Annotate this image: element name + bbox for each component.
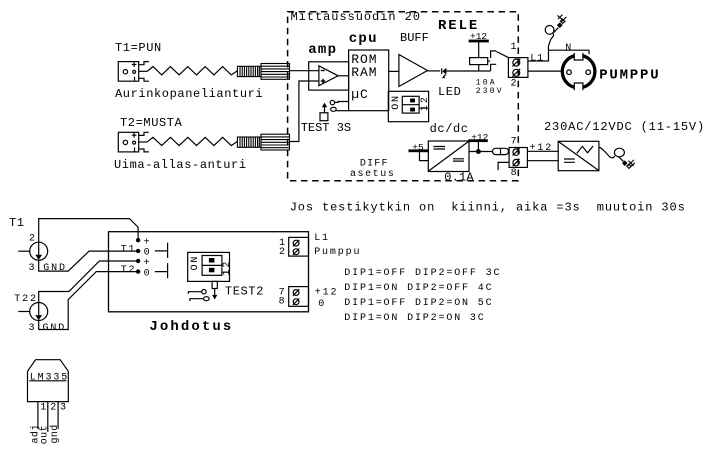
svg-text:Aurinkopanelianturi: Aurinkopanelianturi	[115, 87, 263, 101]
svg-text:230AC/12VDC (11-15V): 230AC/12VDC (11-15V)	[544, 120, 705, 134]
svg-text:T22: T22	[14, 294, 38, 305]
svg-text:PUMPPU: PUMPPU	[599, 68, 660, 84]
svg-text:L1: L1	[530, 53, 544, 64]
svg-text:BUFF: BUFF	[400, 31, 429, 45]
svg-text:GND: GND	[43, 323, 67, 334]
svg-text:Pumppu: Pumppu	[314, 247, 361, 258]
svg-text:asetus: asetus	[350, 169, 395, 180]
svg-text:Johdotus: Johdotus	[149, 319, 233, 335]
svg-text:DIP1=OFF DIP2=ON 5C: DIP1=OFF DIP2=ON 5C	[344, 298, 493, 309]
svg-text:dc/dc: dc/dc	[430, 122, 469, 136]
svg-text:ON: ON	[190, 255, 201, 271]
svg-text:T2: T2	[121, 265, 137, 276]
svg-text:T2=MUSTA: T2=MUSTA	[120, 116, 183, 130]
svg-text:Mittaussuodin 20: Mittaussuodin 20	[291, 10, 421, 24]
svg-text:DIP1=OFF DIP2=OFF 3C: DIP1=OFF DIP2=OFF 3C	[344, 268, 501, 279]
svg-text:2: 2	[279, 247, 285, 258]
svg-text:10A: 10A	[476, 78, 497, 87]
svg-text:1: 1	[511, 42, 517, 53]
svg-text:+12: +12	[315, 287, 339, 298]
svg-text:DIP1=ON DIP2=ON 3C: DIP1=ON DIP2=ON 3C	[344, 313, 485, 324]
svg-text:+12: +12	[471, 132, 488, 143]
svg-text:DIFF: DIFF	[360, 158, 389, 169]
svg-text:LM335: LM335	[30, 372, 69, 383]
svg-text:+: +	[144, 258, 152, 269]
svg-text:0: 0	[318, 299, 326, 310]
svg-text:gnd: gnd	[49, 424, 61, 443]
svg-text:GND: GND	[43, 263, 67, 274]
svg-text:LED: LED	[438, 85, 461, 99]
svg-text:+12: +12	[530, 143, 554, 154]
svg-text:1: 1	[40, 403, 46, 414]
svg-text:2: 2	[29, 234, 37, 245]
svg-text:DIP1=ON DIP2=OFF 4C: DIP1=ON DIP2=OFF 4C	[344, 283, 493, 294]
svg-text:T1: T1	[121, 244, 137, 255]
svg-text:Jos testikytkin on kiinni, ai: Jos testikytkin on kiinni, aika =3s muut…	[290, 201, 686, 215]
svg-text:T1=PUN: T1=PUN	[115, 41, 162, 55]
svg-text:230V: 230V	[476, 87, 504, 96]
svg-text:2: 2	[511, 79, 517, 90]
svg-text:TEST2: TEST2	[225, 285, 264, 299]
svg-text:amp: amp	[308, 42, 337, 58]
svg-text:L1: L1	[314, 233, 330, 244]
svg-text:T1: T1	[9, 216, 25, 230]
svg-text:12: 12	[222, 260, 233, 276]
svg-text:3: 3	[29, 323, 37, 334]
svg-text:RAM: RAM	[351, 65, 377, 80]
svg-text:8: 8	[511, 168, 517, 179]
svg-text:0.1A: 0.1A	[444, 170, 474, 184]
svg-text:cpu: cpu	[349, 31, 378, 47]
svg-text:8: 8	[279, 296, 285, 307]
svg-text:7: 7	[511, 137, 517, 148]
svg-text:2: 2	[50, 403, 56, 414]
svg-text:TEST 3S: TEST 3S	[301, 121, 351, 135]
svg-text:µC: µC	[351, 87, 369, 102]
svg-text:3: 3	[60, 403, 66, 414]
svg-text:Uima-allas-anturi: Uima-allas-anturi	[114, 158, 247, 172]
svg-text:N: N	[565, 43, 571, 54]
svg-text:3: 3	[29, 263, 37, 274]
svg-text:ON: ON	[391, 94, 402, 110]
svg-text:0: 0	[144, 268, 152, 279]
